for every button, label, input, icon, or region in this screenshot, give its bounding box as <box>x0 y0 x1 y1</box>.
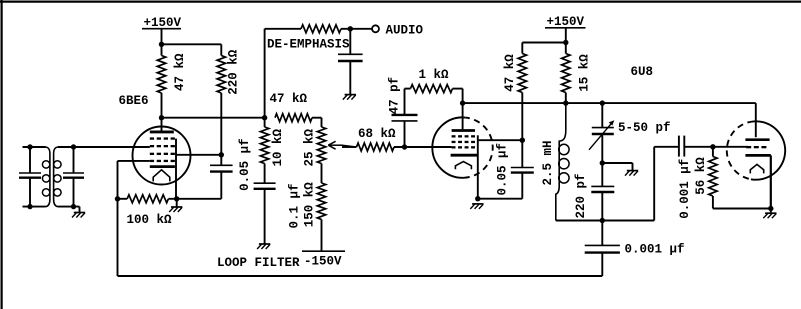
tube V2 grid row 2 <box>452 141 475 143</box>
transformer T1 primary winding <box>42 147 50 207</box>
tube V3 envelope dashed part <box>727 121 754 179</box>
svg-text:47 kΩ: 47 kΩ <box>173 53 187 91</box>
label +150V <box>144 16 182 30</box>
tube V1 grid row 2 <box>150 145 175 147</box>
ground <box>169 199 182 212</box>
capacitor C2 0.05 uf <box>210 165 233 199</box>
svg-text:AUDIO: AUDIO <box>386 24 424 38</box>
wire feedback bottom <box>118 275 603 277</box>
wire <box>58 207 80 213</box>
resistor de-emphasis <box>265 25 372 33</box>
label LOOP FILTER <box>217 256 300 270</box>
ground <box>470 204 483 209</box>
capacitor de-emphasis <box>338 29 363 95</box>
svg-text:56 kΩ: 56 kΩ <box>694 157 708 195</box>
tube V2 grid row 3 <box>452 146 475 148</box>
transformer T1 secondary winding <box>54 147 62 207</box>
svg-text:100 kΩ: 100 kΩ <box>127 213 173 227</box>
label 6U8 <box>631 65 654 79</box>
label AUDIO <box>386 24 424 38</box>
node de-emphasis cap tap <box>348 26 353 31</box>
node screen2 <box>520 138 525 143</box>
inductor L1 2.5 mH <box>556 103 569 220</box>
svg-text:47 pf: 47 pf <box>387 77 401 115</box>
capacitor input primary tuning <box>19 147 41 207</box>
node grid2 drive <box>402 144 407 149</box>
node cathode ground junction <box>174 196 179 201</box>
wire <box>58 146 150 148</box>
svg-text:+150V: +150V <box>547 15 585 29</box>
label 1 kOhm <box>419 68 450 82</box>
ground <box>257 244 270 249</box>
label 25 kOhm <box>302 129 316 167</box>
label 220 pf <box>574 173 588 218</box>
capacitor C3 0.1 uf <box>254 183 276 244</box>
tube V2 grid row 1 <box>452 135 475 137</box>
label +150V right <box>547 15 585 29</box>
label 47 kOhm <box>173 53 187 91</box>
label 0.05 uf V2 <box>495 143 509 196</box>
wire <box>478 198 523 200</box>
svg-text:0.001 µf: 0.001 µf <box>625 242 685 256</box>
svg-text:10 kΩ: 10 kΩ <box>271 129 285 167</box>
label 220 kOhm <box>226 49 240 95</box>
label -150V <box>304 254 342 268</box>
label 0.001 uf grid <box>678 159 692 219</box>
tube V1 grid row 1 <box>150 137 175 139</box>
svg-text:220 pf: 220 pf <box>574 173 588 218</box>
label 150 kOhm <box>303 182 317 228</box>
tube V2 heater <box>455 162 471 170</box>
label 15 kOhm <box>577 54 591 92</box>
wire V1 screen lead <box>176 154 221 156</box>
svg-text:25 kΩ: 25 kΩ <box>302 129 316 167</box>
svg-text:6U8: 6U8 <box>631 65 654 79</box>
capacitor C8 0.001 uf <box>585 221 620 277</box>
svg-text:-150V: -150V <box>304 254 342 268</box>
tube V3 grid row <box>746 146 766 148</box>
ground <box>343 95 356 100</box>
label 100 kOhm <box>127 213 173 227</box>
svg-text:150 kΩ: 150 kΩ <box>303 182 317 228</box>
tube V1 envelope <box>133 127 191 185</box>
resistor R3 100 kOhm <box>118 195 222 203</box>
tube V3 cathode lead <box>770 155 772 208</box>
capacitor C5 0.05 uf screen bypass <box>511 140 534 199</box>
node secondary bottom <box>71 204 76 209</box>
label 68 kOhm <box>358 127 396 141</box>
node tank bottom <box>600 218 605 223</box>
svg-text:0.001 µf: 0.001 µf <box>678 159 692 219</box>
node supply right <box>563 40 568 45</box>
resistor R10 47 kOhm screen <box>518 43 526 141</box>
wire plate bus <box>162 117 265 119</box>
resistor R1 47 kOhm <box>157 44 165 130</box>
tube V3 envelope solid part <box>751 121 785 179</box>
wire V1 grid3 lead <box>118 160 150 162</box>
svg-text:47 kΩ: 47 kΩ <box>270 92 308 106</box>
svg-text:68 kΩ: 68 kΩ <box>358 127 396 141</box>
node V2 plate <box>460 100 465 105</box>
label 6BE6 <box>119 94 149 108</box>
svg-text:0.05 µf: 0.05 µf <box>238 138 252 191</box>
svg-text:DE-EMPHASIS: DE-EMPHASIS <box>267 38 350 52</box>
label 0.1 uf <box>288 183 302 228</box>
wire <box>522 42 566 44</box>
label 10 kOhm <box>271 129 285 167</box>
resistor R12 56 kOhm <box>709 147 771 209</box>
node input bottom-left <box>27 204 32 209</box>
node grid leak left <box>115 196 120 201</box>
potentiometer wiper arrow <box>328 141 356 149</box>
power +150V terminal right <box>545 28 586 43</box>
label DE-EMPHASIS <box>267 38 350 52</box>
tube V2 screen lead <box>478 135 523 198</box>
wire <box>162 43 222 45</box>
svg-text:2.5 mH: 2.5 mH <box>541 140 555 185</box>
svg-text:LOOP FILTER: LOOP FILTER <box>217 256 300 270</box>
wire ground tap <box>602 134 632 171</box>
node secondary top <box>71 144 76 149</box>
wire tank bottom <box>556 220 654 222</box>
resistor R8 68 kOhm <box>342 143 452 151</box>
tube V3 heater <box>750 164 763 173</box>
node plate bus left <box>159 115 164 120</box>
label 47 kOhm screen <box>503 54 517 92</box>
tube V1 grid1 down lead <box>175 139 177 199</box>
ground <box>625 171 638 176</box>
resistor R2 220 kOhm <box>217 44 225 165</box>
tube V1 grid row 3 <box>150 153 175 155</box>
wire <box>23 206 46 208</box>
tube V3 plate <box>745 138 769 141</box>
svg-text:5-50 pf: 5-50 pf <box>618 121 671 135</box>
svg-text:15 kΩ: 15 kΩ <box>577 54 591 92</box>
label 56 kOhm <box>694 157 708 195</box>
tube V2 plate <box>452 129 475 132</box>
label 47 pf <box>387 77 401 115</box>
tube V2 envelope solid part <box>432 117 465 177</box>
svg-text:+150V: +150V <box>144 16 182 30</box>
svg-text:0.05 µf: 0.05 µf <box>495 143 509 196</box>
node V3 cathode ground <box>768 206 773 211</box>
node input top-left <box>27 144 32 149</box>
node V2 cathode ground <box>475 196 480 201</box>
resistor R9 1 kOhm <box>405 85 463 130</box>
node V3 grid <box>710 144 715 149</box>
power +150V terminal <box>142 29 181 45</box>
resistor R4 10 kOhm <box>260 118 268 183</box>
resistor R5 47 kOhm <box>275 114 322 122</box>
label 47 kOhm loop <box>270 92 308 106</box>
tube V3 cathode <box>745 154 770 157</box>
tube V1 grid row 4 <box>150 160 175 162</box>
node tank top <box>600 100 605 105</box>
tube V1 heater <box>153 170 170 182</box>
wire <box>23 146 46 148</box>
label 5-50 pf <box>618 121 671 135</box>
svg-text:6BE6: 6BE6 <box>119 94 149 108</box>
capacitor C7 220 pf <box>591 163 614 221</box>
tube V2 cathode <box>451 154 478 157</box>
node loop filter junction <box>262 115 267 120</box>
capacitor C9 0.001 uf grid <box>679 136 713 157</box>
resistor R11 15 kOhm <box>562 43 570 104</box>
resistor R7 150 kOhm <box>317 183 325 251</box>
svg-text:47 kΩ: 47 kΩ <box>503 54 517 92</box>
ground <box>72 213 85 218</box>
wire de-emphasis riser <box>264 29 266 118</box>
ground <box>763 209 776 219</box>
wire <box>713 146 748 148</box>
svg-text:1 kΩ: 1 kΩ <box>419 68 450 82</box>
capacitor C6 5-50 pf trimmer <box>589 103 614 150</box>
power -150V terminal <box>302 250 345 252</box>
tube V1 plate <box>150 130 174 133</box>
capacitor C4 47 pf <box>392 89 418 147</box>
potentiometer R6 25 kOhm <box>317 118 325 183</box>
wire feedback left column <box>117 161 119 276</box>
node supply left <box>159 42 164 47</box>
svg-text:0.1 µf: 0.1 µf <box>288 183 302 228</box>
node screen bypass <box>219 152 224 157</box>
tube V2 envelope dashed part <box>464 118 493 178</box>
wire oscillator plate bus <box>463 103 756 137</box>
capacitor input secondary tuning <box>63 147 84 207</box>
label 2.5 mH <box>541 140 555 185</box>
terminal AUDIO output <box>372 25 379 32</box>
label 0.001 uf <box>625 242 685 256</box>
wire <box>654 147 679 221</box>
label 0.05 uf <box>238 138 252 191</box>
tube V1 cathode <box>150 165 175 168</box>
node tank feed <box>563 100 568 105</box>
svg-text:220 kΩ: 220 kΩ <box>226 49 240 95</box>
node tank tap <box>600 160 605 165</box>
